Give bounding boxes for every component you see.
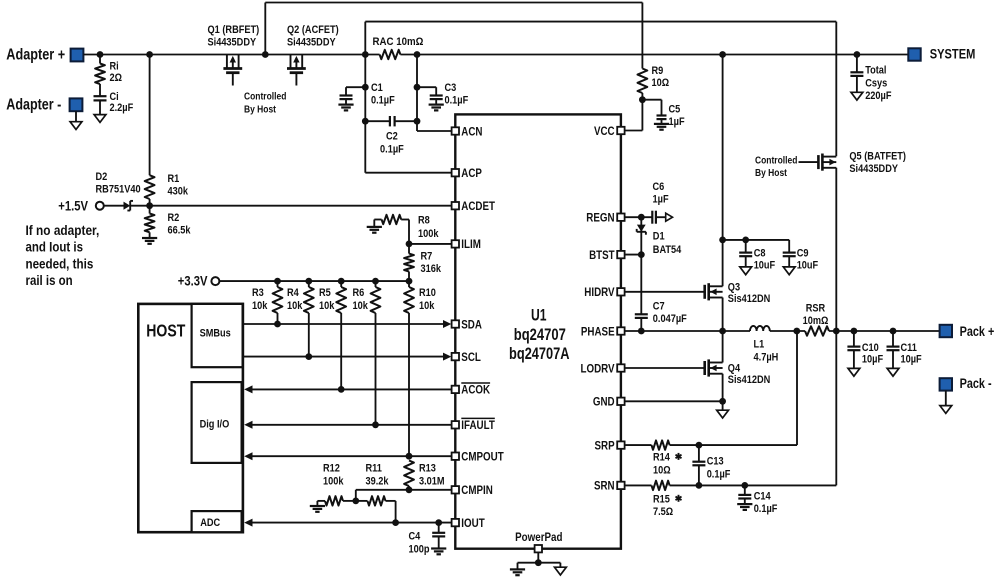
resistor R15 [652, 481, 682, 519]
junction Q3 branch [719, 51, 726, 58]
svg-text:IFAULT: IFAULT [461, 418, 495, 432]
svg-text:D1: D1 [653, 231, 665, 243]
capacitor C1 [340, 82, 395, 106]
svg-text:rail is on: rail is on [26, 273, 73, 288]
pin SCL [452, 350, 481, 364]
svg-text:430k: 430k [168, 186, 189, 198]
svg-text:C3: C3 [445, 82, 457, 94]
svg-text:3.01M: 3.01M [419, 476, 445, 488]
wire 3.3V rail [219, 280, 409, 282]
svg-text:RB751V40: RB751V40 [96, 184, 141, 196]
svg-text:REGN: REGN [586, 211, 614, 225]
wire R12 ground stub [316, 501, 318, 506]
svg-text:C4: C4 [409, 531, 421, 543]
terminal Pack - [940, 376, 992, 391]
svg-text:R13: R13 [419, 463, 436, 475]
ground below C10 [848, 368, 860, 376]
pin GND [593, 395, 625, 409]
wire PowerPad right branch [538, 563, 560, 568]
ground below Pack - [940, 406, 952, 414]
svg-text:100k: 100k [323, 476, 344, 488]
junction R4 top [305, 278, 312, 285]
svg-text:Total: Total [865, 65, 886, 77]
svg-text:Si4435DDY: Si4435DDY [287, 36, 336, 48]
capacitor C7 [635, 255, 687, 331]
block SMBus [192, 304, 243, 367]
svg-text:Q1 (RBFET): Q1 (RBFET) [208, 24, 260, 36]
block HOST [138, 304, 243, 532]
svg-text:Pack -: Pack - [960, 376, 992, 391]
svg-text:66.5k: 66.5k [168, 225, 192, 237]
pin ACOK [452, 383, 491, 397]
svg-text:ACDET: ACDET [461, 199, 495, 213]
ground below R12 [310, 506, 325, 512]
svg-text:220µF: 220µF [865, 90, 891, 102]
junction C2 left [362, 118, 369, 125]
junction C14 tap [741, 482, 748, 489]
wire PowerPad stub [537, 552, 539, 562]
junction RAC right node [414, 51, 421, 58]
wire CMPOUT [244, 452, 451, 460]
inductor L1 [750, 326, 778, 364]
ground below C11 [887, 368, 899, 376]
svg-text:RSR: RSR [806, 302, 825, 314]
capacitor C4 [409, 523, 446, 556]
svg-text:R6: R6 [353, 287, 365, 299]
svg-text:1µF: 1µF [653, 193, 669, 205]
wire Q3 drain [722, 55, 724, 287]
svg-text:PHASE: PHASE [581, 324, 615, 338]
svg-text:C13: C13 [707, 456, 724, 468]
svg-text:C1: C1 [371, 82, 383, 94]
svg-text:R4: R4 [287, 287, 299, 299]
svg-text:Si4435DDY: Si4435DDY [208, 36, 257, 48]
svg-text:0.1µF: 0.1µF [445, 94, 469, 106]
wire R8 ground stub [373, 220, 375, 227]
transistor Q4 Sis412DN [705, 359, 771, 386]
svg-text:Dig I/O: Dig I/O [200, 419, 230, 431]
label Controlled By Host (Q1 Q2) [244, 92, 286, 116]
svg-text:10mΩ: 10mΩ [803, 315, 829, 327]
svg-text:IOUT: IOUT [461, 516, 485, 530]
svg-text:bq24707: bq24707 [514, 325, 566, 344]
svg-text:BTST: BTST [589, 248, 615, 262]
resistor R2 [145, 206, 191, 238]
svg-text:10k: 10k [287, 300, 303, 312]
wire ILIM [409, 243, 452, 245]
svg-text:SCL: SCL [461, 350, 481, 364]
capacitor Csys [850, 55, 891, 103]
resistor Ri [95, 55, 122, 97]
resistor R14 [652, 440, 682, 476]
svg-text:R14: R14 [653, 451, 670, 463]
junction Csys tap [854, 51, 861, 58]
svg-text:BAT54: BAT54 [653, 244, 682, 256]
svg-text:and Iout is: and Iout is [26, 240, 84, 255]
wire Q4 source [722, 374, 724, 402]
svg-text:CMPOUT: CMPOUT [461, 450, 504, 464]
junction GND node [719, 398, 726, 405]
capacitor C2 [365, 116, 417, 155]
resistor R4 [287, 281, 314, 357]
svg-text:Controlled: Controlled [755, 155, 797, 166]
resistor RAC [373, 36, 424, 59]
svg-text:ILIM: ILIM [461, 237, 481, 251]
svg-text:R11: R11 [366, 463, 382, 475]
capacitor C13 [692, 445, 730, 485]
svg-text:C2: C2 [386, 130, 398, 142]
wire C8 C9 branch [723, 239, 790, 241]
transistor Q2 (ACFET) [287, 24, 339, 86]
pin VCC [594, 124, 625, 138]
ground below Adapter - [70, 122, 82, 130]
junction C7 bottom [638, 328, 645, 335]
junction C3 tap [414, 84, 421, 91]
pin CMPOUT [452, 450, 505, 464]
svg-text:4.7µH: 4.7µH [754, 351, 779, 363]
ground PowerPad chassis [555, 567, 567, 575]
terminal +3.3V [178, 274, 220, 289]
wire ACP sense [365, 55, 451, 173]
note rail text [26, 223, 100, 288]
svg-text:HIDRV: HIDRV [584, 285, 614, 299]
junction Q1-Q2 node [262, 51, 269, 58]
junction C4 tap [435, 519, 442, 526]
junction C13 top [696, 442, 703, 449]
junction D1 bottom [638, 251, 645, 258]
junction D1 top [638, 214, 645, 221]
wire Q3 source to PHASE [722, 298, 724, 332]
svg-text:RAC 10mΩ: RAC 10mΩ [373, 36, 424, 48]
svg-text:PowerPad: PowerPad [515, 530, 562, 544]
resistor R10 [404, 281, 436, 456]
svg-text:Q4: Q4 [728, 363, 741, 375]
svg-text:R7: R7 [421, 250, 433, 262]
ground below Q4 [717, 410, 729, 418]
svg-text:ACP: ACP [461, 166, 482, 180]
svg-text:100k: 100k [418, 228, 439, 240]
junction R3 top [274, 278, 281, 285]
svg-text:C8: C8 [754, 248, 766, 260]
ground below C3 [429, 105, 444, 111]
wire REGN [625, 216, 653, 218]
ground below R2 [142, 238, 157, 244]
svg-text:bq24707A: bq24707A [509, 344, 570, 363]
terminal Adapter + [6, 46, 83, 63]
capacitor C5 [642, 100, 684, 128]
junction C11 tap [890, 328, 897, 335]
svg-text:R2: R2 [168, 212, 180, 224]
svg-text:C5: C5 [669, 104, 681, 116]
pin BTST [589, 248, 625, 262]
svg-text:0.1µF: 0.1µF [754, 503, 778, 515]
svg-text:Sis412DN: Sis412DN [728, 374, 771, 386]
pin CMPIN [452, 483, 493, 497]
pin SDA [452, 317, 483, 331]
pin HIDRV [584, 285, 624, 299]
svg-text:CMPIN: CMPIN [461, 483, 493, 497]
svg-text:HOST: HOST [146, 320, 185, 340]
svg-text:C14: C14 [754, 490, 771, 502]
svg-text:Adapter -: Adapter - [6, 96, 61, 113]
svg-text:C11: C11 [901, 342, 917, 354]
pin SRP [595, 438, 625, 452]
svg-text:needed, this: needed, this [26, 256, 94, 271]
svg-text:10uF: 10uF [754, 259, 776, 271]
svg-text:R1: R1 [168, 173, 180, 185]
svg-text:10µF: 10µF [901, 354, 922, 366]
capacitor Ci [94, 91, 134, 114]
svg-text:2.2µF: 2.2µF [110, 102, 134, 114]
diode D1 BAT54 [637, 217, 682, 256]
transistor Q3 Sis412DN [705, 281, 771, 305]
resistor R3 [252, 281, 282, 324]
ground below Ci [94, 115, 106, 123]
junction PHASE node [719, 328, 726, 335]
svg-text:ACN: ACN [461, 124, 482, 138]
capacitor C14 [738, 485, 777, 515]
svg-text:10µF: 10µF [862, 354, 883, 366]
wire CMPIN [356, 490, 452, 501]
svg-text:0.047µF: 0.047µF [653, 313, 687, 325]
ground below C8 [740, 267, 752, 275]
svg-text:Q3: Q3 [728, 281, 740, 293]
svg-text:0.1µF: 0.1µF [371, 94, 395, 106]
svg-text:R10: R10 [419, 287, 436, 299]
resistor R12 [317, 463, 355, 506]
junction C8 rail tap [719, 237, 726, 244]
svg-text:GND: GND [593, 395, 615, 409]
svg-text:1µF: 1µF [669, 116, 685, 128]
ground PowerPad earth [510, 569, 525, 575]
junction ILIM node [406, 241, 413, 248]
svg-text:SDA: SDA [461, 317, 482, 331]
junction SRN rail tap [833, 328, 840, 335]
svg-text:Sis412DN: Sis412DN [728, 293, 771, 305]
terminal +1.5V [58, 198, 104, 213]
svg-text:10Ω: 10Ω [652, 77, 670, 89]
terminal Adapter - [6, 96, 82, 113]
svg-text:C10: C10 [862, 342, 879, 354]
svg-text:Q2 (ACFET): Q2 (ACFET) [287, 24, 339, 36]
junction C13 bottom [696, 482, 703, 489]
svg-text:R5: R5 [319, 287, 331, 299]
svg-text:If no adapter,: If no adapter, [26, 223, 100, 238]
resistor R9 [638, 65, 670, 131]
resistor R1 [145, 55, 189, 206]
wire SDA [243, 320, 451, 328]
junction R3 bottom [274, 321, 281, 328]
wire IOUT [244, 519, 451, 527]
resistor R13 [404, 461, 445, 490]
pin ILIM [452, 237, 481, 251]
junction SRP tap [793, 328, 800, 335]
capacitor C11 [887, 331, 922, 368]
pin ACN [452, 124, 483, 138]
block ADC [192, 511, 242, 532]
resistor R7 [404, 244, 441, 281]
wire GND pin [625, 400, 723, 402]
wire GND stub [722, 401, 724, 410]
svg-text:Si4435DDY: Si4435DDY [849, 163, 898, 175]
svg-text:+3.3V: +3.3V [178, 274, 208, 289]
pin IOUT [452, 516, 486, 530]
pin REGN [586, 211, 624, 225]
svg-text:Pack +: Pack + [960, 324, 995, 339]
junction R11 bottom [392, 519, 399, 526]
wire HIDRV [625, 291, 706, 293]
svg-text:Adapter +: Adapter + [6, 46, 65, 63]
wire 1.5V to D2 [104, 205, 124, 207]
svg-text:0.1µF: 0.1µF [707, 468, 731, 480]
wire R15 to sense [670, 331, 837, 485]
capacitor C3 [417, 82, 468, 106]
junction R6 top [372, 278, 379, 285]
svg-text:10k: 10k [353, 300, 369, 312]
svg-text:10uF: 10uF [797, 259, 819, 271]
wire PowerPad left branch [518, 563, 539, 570]
junction C2 right [414, 118, 421, 125]
svg-text:By Host: By Host [244, 104, 276, 115]
op-amp U1 bq24707 box [455, 114, 621, 548]
junction Ri tap [97, 51, 104, 58]
wire IFAULT [244, 421, 451, 429]
svg-text:R9: R9 [652, 65, 664, 77]
svg-text:10Ω: 10Ω [653, 464, 671, 476]
svg-text:7.5Ω: 7.5Ω [653, 506, 673, 518]
junction R6 bottom [372, 421, 379, 428]
wire ACOK [244, 385, 451, 393]
junction R5 bottom [338, 386, 345, 393]
pin IFAULT [452, 418, 496, 432]
svg-text:316k: 316k [421, 263, 442, 275]
junction R1 tap [146, 51, 153, 58]
wire R14 to sense [670, 331, 797, 445]
wire SRN pin [625, 484, 652, 486]
pin LODRV [581, 361, 625, 375]
transistor Q1 (RBFET) [208, 24, 260, 86]
wire BATFET feed (top line 2) [365, 22, 836, 157]
junction C5 tap [639, 96, 646, 103]
junction RAC left node [362, 51, 369, 58]
junction R11-R12 node [352, 498, 359, 505]
junction R4 bottom [305, 353, 312, 360]
terminal SYSTEM [908, 46, 975, 61]
svg-text:L1: L1 [754, 339, 765, 351]
svg-text:By Host: By Host [755, 168, 787, 179]
svg-text:R8: R8 [418, 214, 430, 226]
svg-text:C7: C7 [653, 301, 665, 313]
capacitor C6 [652, 181, 672, 224]
label Controlled By Host (Q5) [755, 155, 819, 179]
ground below Csys [851, 92, 863, 100]
svg-text:R15: R15 [653, 493, 670, 505]
svg-text:39.2k: 39.2k [366, 476, 390, 488]
ground below C4 [431, 549, 446, 555]
svg-text:R12: R12 [323, 463, 340, 475]
junction C10 tap [851, 328, 858, 335]
wire Q4 drain [722, 331, 724, 363]
junction R5 top [338, 278, 345, 285]
pin PHASE [581, 324, 625, 338]
wire Pack- stub [945, 391, 947, 406]
svg-text:ACOK: ACOK [461, 383, 490, 397]
ground below C5 [654, 124, 669, 130]
resistor R11 [356, 463, 396, 523]
wire ACN sense [417, 55, 452, 132]
transistor Q5 (BATFET) [818, 151, 906, 176]
svg-text:VCC: VCC [594, 124, 615, 138]
svg-text:Controlled: Controlled [244, 92, 286, 103]
svg-text:100p: 100p [409, 544, 430, 556]
diode D2 RB751V40 [96, 171, 141, 211]
capacitor C10 [847, 331, 883, 368]
ground below C1 [338, 105, 353, 111]
wire adapter rail [83, 54, 908, 56]
pin ACDET [452, 199, 496, 213]
wire ACDET [150, 205, 452, 207]
svg-text:SMBus: SMBus [200, 328, 231, 340]
wire SRP pin [625, 444, 652, 446]
svg-text:D2: D2 [96, 171, 108, 183]
svg-text:+1.5V: +1.5V [58, 198, 88, 213]
wire L1 to RSR [770, 330, 805, 332]
terminal Pack + [940, 324, 995, 339]
wire LODRV [625, 367, 706, 369]
svg-text:10k: 10k [252, 300, 268, 312]
junction PowerPad split [535, 559, 542, 566]
pin ACP [452, 166, 482, 180]
svg-text:Ri: Ri [110, 61, 119, 73]
ground below C14 [737, 504, 752, 510]
svg-text:SRN: SRN [594, 479, 615, 493]
wire D2 to ACDET node [130, 205, 149, 207]
wire Adapter- stub [75, 111, 77, 122]
resistor R8 [374, 214, 439, 244]
wire RSR to Pack+ [829, 330, 940, 332]
wire BTST [625, 254, 642, 256]
block Dig I/O [192, 382, 242, 463]
ground below C9 [783, 267, 795, 275]
resistor RSR [803, 302, 829, 335]
capacitor C8 [739, 240, 775, 271]
wire VCC pin [625, 130, 643, 132]
junction ACDET node [146, 202, 153, 209]
junction C1 tap [362, 84, 369, 91]
svg-text:SYSTEM: SYSTEM [930, 46, 976, 61]
wire SCL [243, 353, 451, 361]
svg-text:10k: 10k [319, 300, 335, 312]
ground below R8 [367, 227, 382, 233]
svg-text:C9: C9 [797, 248, 809, 260]
wire VCC feed (top line 1) [265, 3, 642, 69]
svg-text:LODRV: LODRV [581, 361, 615, 375]
svg-text:Q5 (BATFET): Q5 (BATFET) [849, 151, 906, 163]
capacitor C9 [783, 240, 819, 271]
svg-text:SRP: SRP [595, 438, 615, 452]
junction R13 bottom [406, 486, 413, 493]
resistor R6 [353, 281, 381, 425]
junction R7-R10 node [406, 278, 413, 285]
wire Q5 to Pack+ [835, 168, 837, 331]
junction C8 tap [742, 237, 749, 244]
wire PHASE [625, 330, 750, 332]
junction R10 bottom [406, 453, 413, 460]
svg-text:U1: U1 [531, 305, 547, 324]
svg-text:R3: R3 [252, 287, 264, 299]
pin PowerPad [515, 530, 562, 552]
pin SRN [594, 479, 625, 493]
